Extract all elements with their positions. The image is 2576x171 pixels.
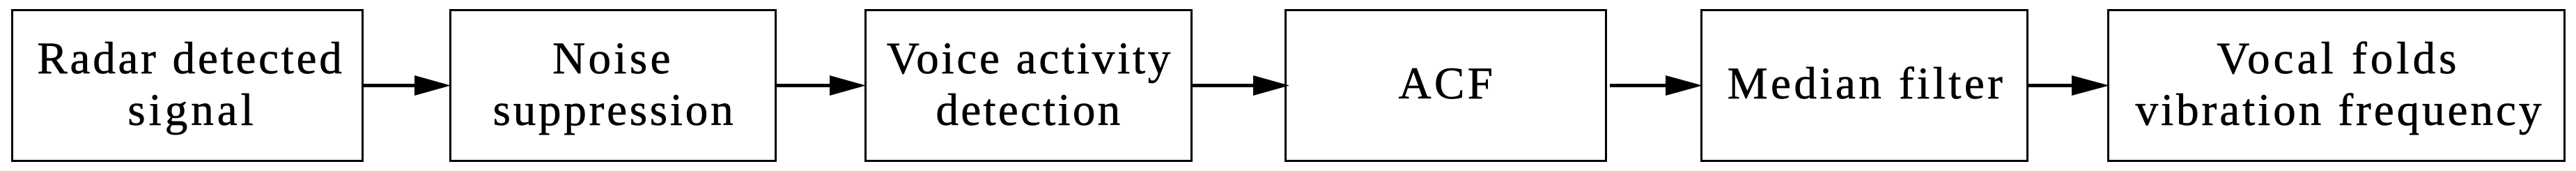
arrowhead [414,75,451,96]
box B1: Radar detected signal [11,9,364,162]
wire [362,84,417,87]
box B3: Voice activity detection [864,9,1193,162]
wire [2027,84,2074,87]
arrowhead [1666,75,1702,96]
arrowhead [2072,75,2109,96]
box B4: ACF [1285,9,1607,162]
arrow A5: B5 to B6 [2027,75,2109,96]
box B5: Median filter [1700,9,2028,162]
arrow A2: B2 to B3 [775,75,866,96]
arrow A1: B1 to B2 [362,75,451,96]
box B2: Noise suppression [449,9,777,162]
wire [1191,84,1255,87]
arrowhead [830,75,866,96]
wire [1610,84,1667,87]
arrow A4: B4 to B5 [1610,75,1702,96]
wire [775,84,831,87]
box B6: Vocal folds vibration frequency [2107,9,2566,162]
arrow A3: B3 to B4 [1191,75,1289,96]
arrowhead [1253,75,1289,96]
